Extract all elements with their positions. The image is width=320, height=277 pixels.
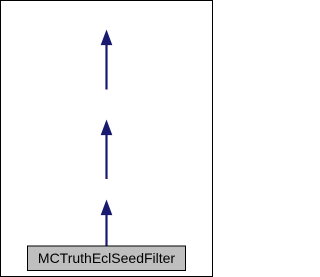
class node MCTruthEclSeedFilter	[28, 246, 186, 271]
inheritance arrow (middle)	[101, 120, 112, 179]
svg-text:MCTruthEclSeedFilter: MCTruthEclSeedFilter	[38, 250, 176, 266]
inheritance arrow (bottom)	[101, 200, 112, 246]
inheritance arrow (top)	[101, 30, 112, 89]
